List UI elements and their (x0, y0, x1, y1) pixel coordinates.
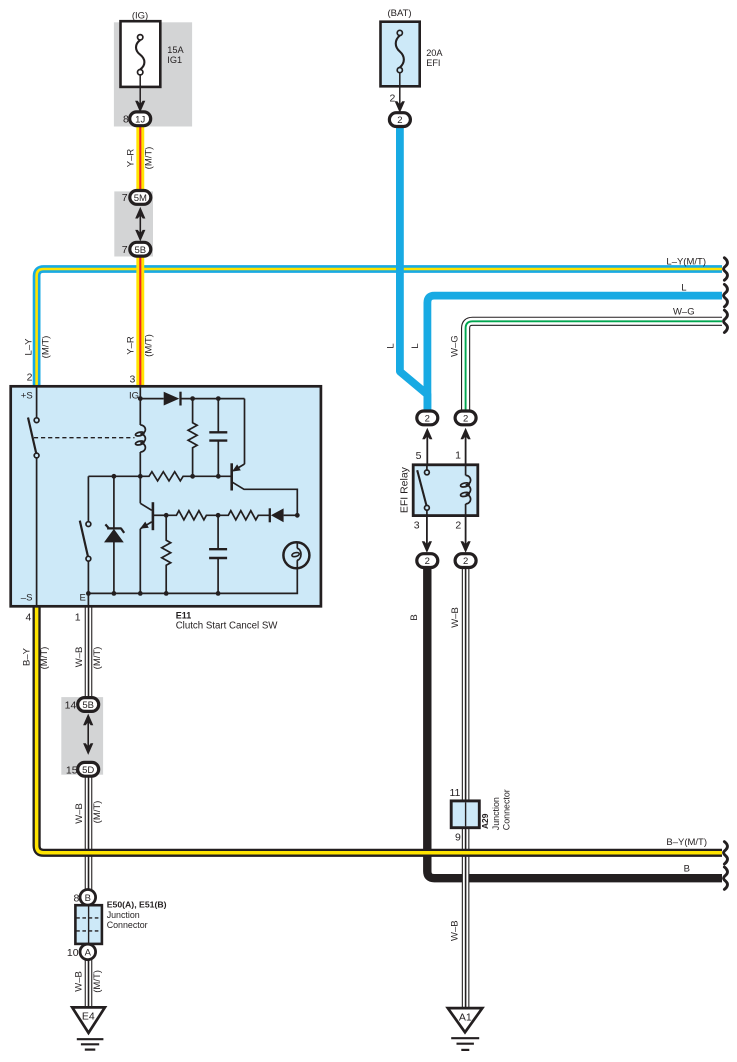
svg-text:2: 2 (397, 115, 402, 126)
svg-text:1: 1 (455, 450, 461, 462)
svg-text:Y–R: Y–R (125, 336, 136, 355)
capacitor C2 (209, 515, 227, 593)
wire B from EFI relay pin 3 down and right to page edge (427, 567, 722, 879)
svg-text:5B: 5B (134, 245, 146, 256)
label 11 pin A29 (449, 787, 460, 799)
svg-text:(M/T): (M/T) (39, 647, 50, 670)
wire W-B from E11 pin 1 to junction connector B (85, 606, 93, 699)
svg-text:5: 5 (416, 450, 422, 462)
label (IG) (132, 10, 148, 21)
gray panel behind connectors 5B/5D (61, 697, 103, 775)
label (BAT) (387, 8, 411, 19)
svg-text:14: 14 (65, 700, 77, 712)
svg-text:7: 7 (122, 192, 128, 204)
ground A1 (448, 1008, 483, 1050)
svg-text:E50(A), E51(B): E50(A), E51(B) (107, 899, 167, 909)
node C2 bottom (216, 591, 221, 596)
fuse 20A EFI box (381, 22, 420, 87)
label 20A EFI (426, 48, 443, 68)
label B-Y (M/T) rotated (21, 647, 50, 670)
label 2 relay pin (455, 519, 461, 531)
svg-text:2: 2 (463, 556, 468, 567)
label 9 pin A29 (455, 831, 461, 843)
svg-text:2: 2 (389, 92, 395, 104)
EFI Relay box (413, 465, 478, 516)
svg-text:2: 2 (27, 371, 33, 383)
middle rail 2 with resistors R3 R4 (166, 511, 269, 520)
connector 1J (130, 112, 151, 126)
continuation mark wire L (724, 284, 728, 306)
svg-text:W–G: W–G (673, 307, 695, 318)
svg-text:4: 4 (26, 612, 32, 624)
continuation mark wire B (724, 867, 728, 889)
svg-text:E: E (79, 593, 85, 604)
svg-text:(IG): (IG) (132, 10, 148, 21)
gray panel behind connectors 5M/5B (114, 191, 153, 256)
svg-text:10: 10 (67, 947, 79, 959)
svg-text:15A: 15A (167, 45, 184, 55)
node coil bottom (138, 474, 143, 479)
label 2 pin +S (27, 371, 33, 383)
svg-text:B: B (85, 893, 91, 904)
relay switch (417, 466, 429, 515)
svg-text:2: 2 (425, 556, 430, 567)
diode D2 (270, 508, 298, 522)
label 15A IG1 (167, 45, 184, 65)
connector 5B (130, 242, 151, 256)
svg-text:3: 3 (129, 374, 135, 386)
connector 2 above relay pin 1 (455, 411, 476, 425)
svg-text:5B: 5B (82, 700, 94, 711)
label 10 terminal A (67, 947, 79, 959)
label W-B rotated above A1 (450, 920, 461, 941)
wire W-B junction connector A to ground E4 (85, 959, 93, 1007)
wire W-G to page edge (466, 321, 722, 412)
gray panel behind fuse IG1 (114, 22, 192, 126)
switch S2 (80, 476, 91, 593)
label L at page edge (681, 282, 686, 293)
node top of C1 (216, 396, 221, 401)
pin 5 lead with arrow (422, 428, 432, 464)
svg-text:W–B: W–B (450, 607, 461, 628)
svg-text:5M: 5M (134, 193, 147, 204)
wire L horizontal to page edge (427, 296, 722, 412)
resistor R1 (188, 399, 197, 477)
svg-text:1J: 1J (135, 114, 145, 125)
transistor Q1 (232, 463, 298, 515)
connector 5B lower (78, 698, 99, 712)
svg-text:IG: IG (129, 391, 139, 402)
node R1 bottom (190, 474, 195, 479)
svg-text:B–Y: B–Y (21, 647, 32, 666)
pin 2 lead fuse EFI to connector 2 (395, 73, 405, 113)
wire L from fuse EFI down (400, 122, 428, 411)
switch S1 at +S (28, 388, 39, 606)
relay coil (460, 466, 470, 515)
svg-text:W–B: W–B (450, 920, 461, 941)
svg-text:W–G: W–G (449, 335, 460, 357)
svg-text:L–Y: L–Y (23, 338, 34, 356)
svg-text:3: 3 (414, 519, 420, 531)
svg-text:W–B: W–B (73, 971, 84, 992)
label 7 pin 5B (122, 244, 128, 256)
label 15 pin (66, 765, 78, 777)
label E (79, 593, 85, 604)
junction connector A29 (451, 801, 479, 828)
svg-text:–S: –S (21, 593, 33, 604)
node zener bottom (112, 591, 117, 596)
connector 5D (78, 762, 99, 776)
wire W-B connector 5D to junction connector B (85, 776, 93, 890)
label W-B (M/T) above E4 (73, 970, 103, 993)
capacitor C1 (209, 399, 227, 477)
label Y-R (M/T) upper (125, 147, 154, 170)
wire B-Y from E11 pin 4 down and right to page edge (37, 606, 722, 853)
fuse element IG1 (136, 35, 144, 75)
svg-text:A1: A1 (459, 1012, 472, 1024)
connector 2 below relay pin 3 (417, 554, 438, 568)
label W-B rotated relay (450, 607, 461, 628)
label -S (21, 593, 33, 604)
continuation mark wire L-Y (724, 258, 728, 890)
svg-text:15: 15 (66, 765, 78, 777)
svg-text:(M/T): (M/T) (40, 336, 51, 359)
svg-text:W–B: W–B (74, 647, 85, 668)
wire L-Y from E11 pin 2 up and right to page edge (37, 269, 722, 388)
svg-text:EFI: EFI (426, 58, 440, 68)
node C2 top (216, 513, 221, 518)
label A29 Junction Connector rotated (480, 789, 511, 830)
label L-Y (M/T) vertical (23, 336, 51, 359)
label B-Y(M/T) at page edge (666, 837, 707, 848)
svg-text:11: 11 (449, 787, 460, 799)
node C1 bottom (216, 474, 221, 479)
wire IG top rail (140, 399, 244, 465)
svg-text:E11: E11 (176, 611, 192, 621)
svg-text:5D: 5D (82, 765, 94, 776)
label E4 (82, 1011, 95, 1023)
connector 2 above relay pin 5 (417, 411, 438, 425)
svg-text:Connector: Connector (107, 920, 148, 930)
label IG (129, 391, 139, 402)
pin lead fuse IG1 to connector 1J (135, 75, 145, 113)
bottom rail E (88, 560, 297, 605)
junction connector terminal B (80, 890, 96, 906)
svg-text:2: 2 (455, 519, 461, 531)
junction connector E50 E51 block (75, 905, 102, 944)
connector 2 below relay pin 2 (455, 554, 476, 568)
label B rotated (409, 614, 420, 620)
label W-B (M/T) rotated upper (74, 647, 103, 670)
label L rotated on fuse wire (385, 343, 396, 348)
label E50 E51 title (107, 899, 167, 930)
connector 5M (130, 191, 151, 205)
label L-Y(M/T) at page edge (666, 256, 706, 267)
svg-text:L: L (410, 343, 421, 348)
svg-text:A29: A29 (480, 813, 490, 829)
node E (86, 591, 91, 596)
svg-text:+S: +S (21, 391, 33, 402)
label 3 pin IG (129, 374, 135, 386)
link arrows between 5B and 5D (83, 714, 93, 755)
wire W-B from EFI relay pin 2 to ground A1 (462, 567, 470, 1009)
label 7 pin 5M (122, 192, 128, 204)
label EFI Relay rotated (399, 466, 411, 513)
svg-text:IG1: IG1 (167, 55, 182, 65)
label 14 pin (65, 700, 77, 712)
node lamp top (295, 513, 300, 518)
svg-text:B: B (684, 864, 690, 875)
relay coil L1 on IG line (135, 388, 145, 477)
node Q2 emitter bottom (138, 591, 143, 596)
diode D1 (164, 392, 181, 406)
fuse 15A IG1 box (121, 21, 161, 87)
svg-text:Junction: Junction (107, 910, 140, 920)
svg-text:20A: 20A (426, 48, 443, 58)
svg-text:Connector: Connector (501, 789, 511, 830)
svg-text:9: 9 (455, 831, 461, 843)
label 1 pin (75, 612, 81, 624)
label 5 relay pin (416, 450, 422, 462)
label W-G at page edge (673, 307, 695, 318)
svg-text:8: 8 (123, 114, 129, 126)
svg-text:A: A (85, 948, 92, 959)
svg-text:(M/T): (M/T) (92, 647, 103, 670)
svg-text:Y–R: Y–R (125, 149, 136, 168)
continuation mark wire B-Y (724, 842, 728, 864)
label 2 pin fuse EFI (389, 92, 395, 104)
node top of R1 (190, 396, 195, 401)
dashed mechanical link (34, 437, 135, 439)
svg-text:L: L (385, 343, 396, 348)
svg-text:L–Y(M/T): L–Y(M/T) (666, 256, 706, 267)
connector 2 below fuse EFI (389, 113, 410, 127)
label +S (21, 391, 33, 402)
svg-text:8: 8 (74, 892, 80, 904)
label A1 (459, 1012, 472, 1024)
transistor Q2 (140, 476, 166, 593)
svg-text:B: B (409, 614, 420, 620)
label 8 terminal B (74, 892, 80, 904)
svg-text:2: 2 (425, 414, 430, 425)
svg-text:(M/T): (M/T) (92, 970, 103, 993)
svg-text:(M/T): (M/T) (144, 147, 155, 170)
label 4 pin (26, 612, 32, 624)
svg-text:(M/T): (M/T) (144, 334, 155, 357)
label 8 pin (123, 114, 129, 126)
wire Y-R connector 5B to E11 pin 3 (136, 256, 144, 389)
fuse element EFI (396, 30, 404, 72)
node IG (138, 396, 143, 401)
node Q2 base (164, 513, 169, 518)
link arrows between 5M and 5B (135, 207, 145, 242)
svg-text:2: 2 (463, 414, 468, 425)
E11 Clutch Start Cancel SW box (11, 386, 321, 606)
svg-text:7: 7 (122, 244, 128, 256)
pin 1 lead with arrow (461, 428, 471, 464)
svg-text:E4: E4 (82, 1011, 95, 1023)
svg-text:(BAT): (BAT) (387, 8, 411, 19)
svg-text:B–Y(M/T): B–Y(M/T) (666, 837, 707, 848)
label W-G rotated (449, 335, 460, 357)
label E11 title (176, 611, 279, 632)
zener diode ZD (105, 476, 124, 593)
resistor R5 (162, 515, 171, 593)
ground E4 (72, 1007, 105, 1049)
continuation mark wire W-G (724, 310, 728, 332)
node zener top (112, 474, 117, 479)
label L rotated on relay wire (410, 343, 421, 348)
lamp (283, 542, 309, 568)
pin 2 lead with arrow (461, 517, 471, 553)
svg-text:(M/T): (M/T) (92, 801, 103, 824)
svg-text:Clutch Start Cancel SW: Clutch Start Cancel SW (176, 620, 279, 631)
pin 3 lead with arrow (422, 517, 432, 553)
svg-text:Junction: Junction (491, 797, 501, 830)
node R5 bottom (164, 591, 169, 596)
wire Y-R fuse IG1 to connector 5M (136, 125, 144, 192)
svg-text:1: 1 (75, 612, 81, 624)
svg-text:L: L (681, 282, 686, 293)
label 3 relay pin (414, 519, 420, 531)
middle rail 1 with resistor R2 (88, 472, 230, 481)
svg-text:EFI Relay: EFI Relay (399, 466, 411, 513)
label Y-R (M/T) lower (125, 334, 154, 357)
label 1 relay pin (455, 450, 461, 462)
label W-B (M/T) rotated lower (74, 801, 103, 824)
junction connector terminal A (80, 944, 96, 960)
svg-text:W–B: W–B (74, 803, 85, 824)
label B at page edge (684, 864, 690, 875)
